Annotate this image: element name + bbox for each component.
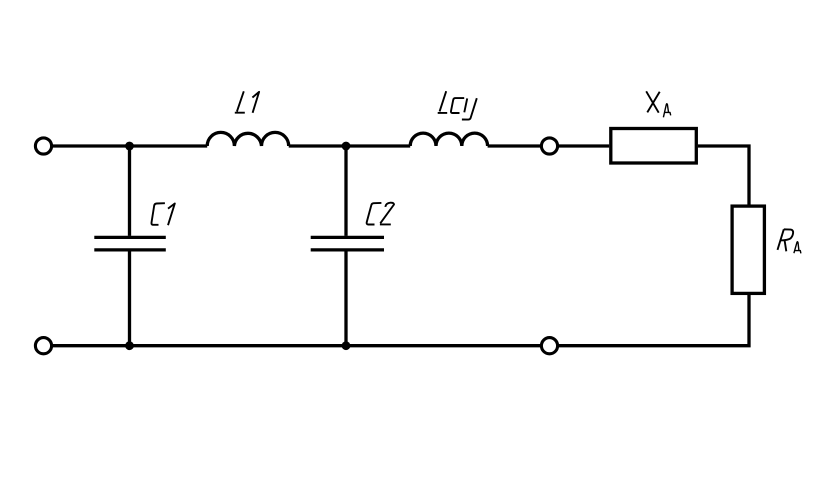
terminal T3 (top middle) xyxy=(541,138,557,154)
wire: RA down to bottom rail xyxy=(558,293,749,345)
reactance XA (box) xyxy=(611,129,697,164)
terminal T2 (input bottom) xyxy=(35,338,51,354)
label C1 xyxy=(151,203,174,225)
label RA xyxy=(778,229,794,251)
capacitor C2 bottom lead xyxy=(344,251,347,345)
wire: XA to right corner, down to RA xyxy=(698,146,749,206)
capacitor C1 plates xyxy=(94,236,166,239)
capacitor C1 top lead xyxy=(128,146,131,236)
junction node bottom-mid xyxy=(342,341,351,350)
label Lcy xyxy=(438,91,477,119)
wire top-left: T1 to L1 xyxy=(52,144,207,147)
junction node top-left xyxy=(125,142,134,151)
label L1 xyxy=(235,91,259,113)
capacitor C2 top lead xyxy=(344,146,347,236)
terminal T1 (input top) xyxy=(35,138,51,154)
wire: T3 to XA xyxy=(558,144,610,147)
wire bottom rail: T2 to T4 xyxy=(52,344,541,347)
label C2 xyxy=(367,203,394,225)
junction node bottom-left xyxy=(125,341,134,350)
capacitor C2 plates xyxy=(311,236,384,239)
label XA xyxy=(646,91,660,112)
inductor Lcy xyxy=(410,133,487,146)
terminal T4 (bottom middle) xyxy=(541,338,557,354)
inductor L1 xyxy=(207,132,289,146)
capacitor C1 bottom lead xyxy=(128,251,131,345)
junction node top-mid xyxy=(342,142,351,151)
resistor RA (box) xyxy=(732,206,764,293)
wire top-mid: L1 to Lcy xyxy=(289,144,411,147)
wire: Lcy to terminal T3 xyxy=(488,144,542,147)
